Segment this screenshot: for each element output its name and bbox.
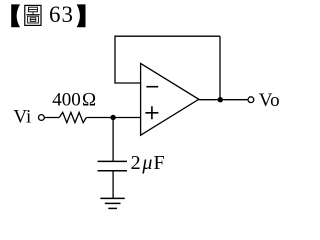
resistor R 400ohm zigzag (59, 112, 86, 122)
terminal Vo open circle (248, 97, 254, 103)
terminal Vi open circle (39, 115, 45, 121)
node junction dot A (110, 115, 115, 120)
svg-text:400Ω: 400Ω (52, 90, 96, 111)
node junction dot output (218, 97, 223, 102)
title bracket left 【 (11, 4, 20, 27)
op-amp U1 triangle (141, 63, 199, 135)
capacitor C 2uF plates (98, 160, 127, 162)
wire resistor to op-amp plus input (through node) (86, 117, 140, 119)
svg-text:2μF: 2μF (131, 152, 165, 174)
svg-text:Vo: Vo (259, 90, 280, 111)
op-amp minus sign (146, 86, 158, 88)
wire node down to capacitor (112, 118, 114, 162)
title bracket right 】 (77, 4, 86, 27)
svg-text:63: 63 (49, 2, 73, 27)
title glyph 圖 (25, 5, 41, 25)
ground symbol (100, 198, 124, 208)
wire feedback right vertical from output node (219, 36, 221, 99)
wire op-amp output to Vo terminal (199, 99, 248, 101)
wire Vi to resistor (44, 117, 59, 119)
op-amp plus sign (145, 106, 158, 119)
svg-text:Vi: Vi (13, 106, 31, 127)
wire capacitor to ground (112, 171, 114, 199)
wire feedback: top run, left vertical, to minus input (115, 36, 220, 83)
